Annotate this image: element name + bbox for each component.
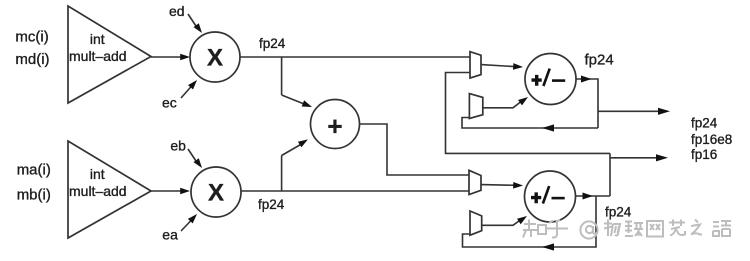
svg-text:fp24: fp24: [259, 36, 286, 51]
svg-text:X: X: [208, 180, 224, 207]
svg-text:fp16e8: fp16e8: [691, 132, 732, 147]
svg-text:ma(i): ma(i): [17, 162, 51, 179]
svg-text:int: int: [90, 166, 105, 182]
svg-text:mult–add: mult–add: [69, 48, 127, 64]
svg-text:fp24: fp24: [691, 116, 718, 131]
svg-text:fp24: fp24: [585, 52, 614, 69]
svg-text:ec: ec: [162, 95, 177, 111]
svg-text:mc(i): mc(i): [15, 29, 48, 46]
svg-text:X: X: [207, 45, 223, 72]
svg-text:ea: ea: [162, 227, 178, 243]
svg-text:+: +: [327, 111, 342, 141]
svg-text:fp24: fp24: [605, 205, 632, 220]
svg-text:int: int: [90, 31, 105, 47]
svg-text:fp16: fp16: [691, 147, 717, 162]
svg-text:md(i): md(i): [15, 51, 49, 68]
svg-text:fp24: fp24: [258, 197, 285, 212]
svg-text:mult–add: mult–add: [69, 183, 127, 199]
svg-text:eb: eb: [170, 138, 186, 154]
svg-text:ed: ed: [169, 3, 185, 19]
svg-text:mb(i): mb(i): [17, 187, 51, 204]
